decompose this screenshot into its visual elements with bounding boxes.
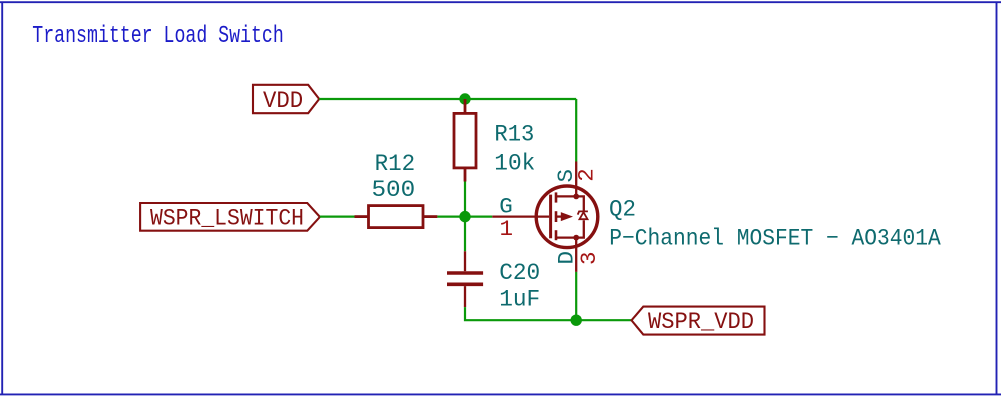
wire VDD vertical to Q2 source bbox=[575, 99, 577, 162]
Q2 source contact line bbox=[556, 196, 584, 210]
svg-text:10k: 10k bbox=[494, 150, 535, 176]
Q2 channel segment top bbox=[555, 192, 558, 202]
svg-text:R13: R13 bbox=[494, 122, 534, 148]
wire R12 to gate pin bbox=[437, 216, 492, 218]
Q2 channel segment middle bbox=[555, 211, 558, 222]
global label VDD bbox=[253, 85, 319, 113]
resistor R13 bbox=[454, 99, 476, 182]
wire C20 to bottom rail bbox=[465, 307, 631, 320]
global label WSPR_LSWITCH bbox=[140, 203, 320, 231]
global label WSPR_VDD bbox=[632, 307, 765, 335]
junction at gate node bbox=[459, 211, 470, 222]
svg-text:2: 2 bbox=[574, 168, 600, 182]
capacitor C20 bbox=[447, 251, 483, 307]
svg-text:C20: C20 bbox=[499, 260, 540, 286]
Q2 gate bar bbox=[549, 195, 552, 239]
resistor R12 bbox=[355, 206, 438, 228]
svg-text:Transmitter Load Switch: Transmitter Load Switch bbox=[32, 23, 283, 50]
wire drain to bottom rail bbox=[575, 272, 577, 320]
svg-text:1: 1 bbox=[500, 216, 514, 242]
svg-text:1uF: 1uF bbox=[499, 286, 540, 312]
svg-text:VDD: VDD bbox=[263, 88, 303, 114]
svg-text:P−Channel MOSFET − AO3401A: P−Channel MOSFET − AO3401A bbox=[609, 226, 941, 252]
Q2 channel segment bottom bbox=[555, 230, 558, 240]
Q2 body diode bbox=[578, 211, 588, 219]
Q2 source internal dot bbox=[573, 194, 579, 200]
svg-text:3: 3 bbox=[576, 252, 602, 266]
wire gate node down to C20 bbox=[464, 217, 466, 252]
Q2 drain contact line bbox=[556, 220, 584, 237]
svg-text:Q2: Q2 bbox=[609, 196, 636, 222]
svg-text:500: 500 bbox=[372, 177, 416, 203]
Q2 drain pin 3 bbox=[575, 238, 577, 272]
Q2 bulk arrow bbox=[556, 215, 561, 217]
wire R13 to gate node bbox=[464, 182, 466, 217]
Q2 source pin 2 bbox=[575, 162, 577, 197]
junction at VDD / R13 bbox=[459, 93, 470, 104]
svg-text:WSPR_LSWITCH: WSPR_LSWITCH bbox=[150, 205, 304, 231]
wire WSPR_LSWITCH to R12 bbox=[320, 216, 355, 218]
transistor Q2 (P-Channel MOSFET) bbox=[492, 162, 598, 272]
Q2 gate pin 1 bbox=[492, 215, 549, 217]
junction at drain / bottom rail bbox=[571, 315, 582, 326]
svg-text:WSPR_VDD: WSPR_VDD bbox=[648, 309, 754, 335]
wire VDD horizontal bbox=[319, 98, 576, 100]
svg-text:R12: R12 bbox=[375, 151, 416, 177]
Q2 body circle bbox=[536, 186, 598, 248]
Q2 drain internal dot bbox=[573, 235, 579, 241]
